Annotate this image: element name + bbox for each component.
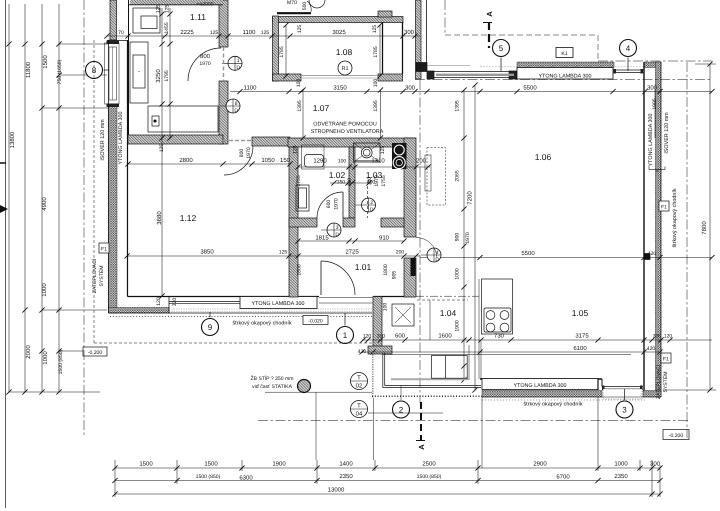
wall above 108 cropped: [277, 12, 311, 14]
svg-text:100: 100: [373, 79, 379, 88]
svg-text:1.04: 1.04: [440, 308, 457, 318]
label box: YTONG LAMBDA 300 bottom-right window: [482, 379, 598, 390]
svg-text:2000: 2000: [25, 345, 32, 359]
svg-text:A: A: [485, 11, 494, 17]
svg-text:1785: 1785: [279, 46, 285, 57]
svg-text:štrkový okapový chodník: štrkový okapový chodník: [232, 321, 291, 327]
svg-text:5500: 5500: [521, 250, 535, 257]
svg-text:STROPNEHO VENTILATORA: STROPNEHO VENTILATORA: [311, 129, 384, 135]
svg-text:300: 300: [647, 85, 658, 92]
wall: bottom wall left wing insulation: [109, 308, 170, 314]
svg-text:-0,020: -0,020: [308, 319, 323, 325]
svg-text:6300: 6300: [239, 475, 253, 482]
svg-text:T: T: [357, 375, 361, 382]
svg-text:13000: 13000: [328, 487, 345, 494]
wall: room 111 right wall lower: [219, 81, 228, 144]
svg-text:150: 150: [280, 157, 291, 164]
half circle cropped top: [309, 0, 325, 8]
axis 4: [620, 40, 637, 57]
wall: bathroom west wall: [289, 147, 298, 297]
svg-text:300: 300: [377, 334, 386, 340]
svg-text:04: 04: [356, 411, 363, 418]
fixture: washbasin 103: [354, 143, 381, 162]
walkway edge lines bottom: [265, 391, 372, 393]
window: left wall tall window: [105, 43, 120, 104]
door 111 dashes: [223, 47, 225, 81]
fixture: sink 104: [392, 304, 414, 326]
svg-text:K1: K1: [561, 51, 567, 57]
svg-text:2065: 2065: [455, 170, 461, 181]
svg-text:420: 420: [648, 251, 657, 257]
svg-text:1.01: 1.01: [355, 262, 372, 272]
svg-text:D: D: [236, 65, 240, 71]
svg-text:125: 125: [372, 25, 378, 34]
svg-text:1500 (850): 1500 (850): [417, 474, 442, 480]
section A bottom: [420, 402, 422, 440]
svg-text:910: 910: [379, 235, 390, 242]
svg-text:ZATEPLOVACÍ: ZATEPLOVACÍ: [91, 258, 98, 293]
window: NE window part2: [614, 69, 644, 71]
svg-text:800: 800: [239, 149, 245, 158]
window: bottom wall window glazing: [169, 301, 240, 303]
fixture: boiler circles: [392, 143, 407, 169]
svg-text:1.08: 1.08: [336, 47, 353, 57]
svg-text:1400: 1400: [339, 461, 353, 468]
dim chain: bottom horizontal lines: [115, 467, 660, 469]
dim chain: right side 7800: [709, 64, 711, 390]
wall: room 108 top: [273, 17, 404, 23]
svg-text:3250: 3250: [155, 69, 162, 83]
svg-text:120: 120: [363, 334, 372, 340]
door tag 4/D: [427, 248, 441, 262]
svg-text:1290: 1290: [313, 158, 327, 165]
porch slab lines: [383, 353, 481, 388]
axis 8: [86, 62, 103, 79]
dim line y=257 room 106 5500: [420, 257, 712, 259]
dim line y=183 short 102: [330, 182, 372, 184]
svg-text:D: D: [335, 232, 339, 238]
svg-text:350: 350: [337, 180, 346, 186]
dim extension lines left: [59, 43, 108, 45]
svg-text:YTONG LAMBDA 300: YTONG LAMBDA 300: [648, 114, 654, 167]
fixture: radiator 102: [296, 185, 309, 211]
svg-text:13800: 13800: [9, 131, 16, 148]
dim chain: left side vertical lines: [8, 4, 10, 392]
svg-text:R1: R1: [341, 66, 348, 72]
wall: east wall of 103/hall upper: [404, 138, 416, 237]
tag T/04: [351, 401, 368, 418]
svg-text:SYSTÉM: SYSTÉM: [662, 372, 669, 393]
svg-text:2800: 2800: [179, 157, 193, 164]
stove 105: [484, 308, 511, 332]
svg-text:1395: 1395: [373, 100, 379, 111]
wall: partition segment east of 112 door: [252, 137, 290, 146]
vertical dim lines 1395: [302, 90, 304, 138]
K1 tag: [556, 48, 573, 58]
door tag 2/D: [362, 198, 376, 212]
door 102 arc: [317, 192, 343, 218]
svg-text:1.02: 1.02: [329, 170, 346, 180]
svg-text:1900: 1900: [272, 461, 286, 468]
dim line y=167 bath fixtures: [298, 166, 430, 168]
duct wall right of 108: [382, 22, 384, 74]
svg-text:štrkový okapový chodník: štrkový okapový chodník: [672, 188, 678, 247]
wall: SE corner piece: [643, 391, 661, 398]
svg-text:125: 125: [293, 145, 299, 154]
svg-text:2: 2: [370, 200, 373, 206]
svg-text:2725: 2725: [345, 249, 359, 256]
svg-text:1100: 1100: [243, 29, 257, 36]
svg-text:1100: 1100: [244, 85, 258, 92]
section A top: [488, 22, 490, 48]
svg-text:D: D: [435, 257, 439, 263]
svg-text:1.07: 1.07: [313, 103, 330, 113]
svg-text:8: 8: [92, 66, 97, 75]
svg-text:6700: 6700: [556, 474, 570, 481]
svg-text:6100: 6100: [573, 345, 587, 352]
svg-text:3850: 3850: [200, 249, 214, 256]
svg-text:100: 100: [338, 159, 347, 165]
svg-text:ISOVER 120 mm: ISOVER 120 mm: [100, 119, 106, 161]
wall: bathroom block top wall: [288, 138, 415, 147]
axis 5: [493, 40, 510, 57]
svg-text:100: 100: [296, 79, 302, 88]
svg-text:3025: 3025: [332, 29, 346, 36]
svg-text:7200: 7200: [467, 191, 474, 205]
svg-text:1900: 1900: [455, 320, 461, 331]
wall: room 108 left: [273, 16, 279, 81]
svg-text:100: 100: [383, 303, 389, 312]
svg-text:125: 125: [380, 146, 386, 155]
svg-text:3: 3: [622, 405, 627, 414]
svg-text:YTONG LAMBDA 300: YTONG LAMBDA 300: [514, 383, 567, 389]
svg-text:ŽB STĺP ? 250 mm: ŽB STĺP ? 250 mm: [251, 375, 294, 382]
fixture: basin 102: [302, 145, 325, 169]
tag T/02: [351, 373, 368, 390]
lintel dashes over 112 door: [223, 140, 252, 142]
wall: room 111 left partition: [128, 0, 130, 135]
svg-text:1785: 1785: [373, 46, 379, 57]
dim line y=36 top of 111: [107, 35, 420, 37]
door 112 arc: [224, 146, 253, 175]
svg-text:1000: 1000: [614, 461, 628, 468]
wall: partition 102/103: [349, 147, 355, 218]
wall: bottom wall left wing inner face: [128, 296, 320, 298]
furniture: washing machine 111: [133, 8, 160, 33]
svg-text:1050: 1050: [261, 157, 275, 164]
wall: corridor east wall x=415: [416, 0, 422, 79]
svg-text:1.06: 1.06: [535, 152, 552, 162]
svg-text:900: 900: [455, 233, 461, 242]
dim line y=241 in 101: [298, 240, 404, 242]
wall: 106 top wall window head insulation: [517, 62, 614, 68]
F1 boxed labels: [99, 243, 109, 253]
svg-text:1000: 1000: [42, 351, 49, 365]
svg-text:+a2000: +a2000: [196, 2, 213, 8]
svg-text:125: 125: [261, 30, 270, 36]
door 107-106 leaf and arc: [416, 238, 437, 259]
svg-text:ODVETRANE POMOCOU: ODVETRANE POMOCOU: [313, 122, 377, 128]
svg-text:1.05: 1.05: [572, 308, 589, 318]
axis 9: [202, 319, 219, 336]
wall: bathroom bottom wall segments: [289, 218, 317, 227]
svg-text:ZATEPLOVACÍ: ZATEPLOVACÍ: [655, 364, 662, 399]
svg-text:A: A: [417, 444, 426, 450]
svg-text:4: 4: [626, 44, 631, 53]
vertical dim lines room 108 1785: [285, 25, 287, 76]
svg-text:300: 300: [405, 85, 416, 92]
vertical dim lines right of 104 x=466,477: [463, 90, 465, 380]
wall: partition under 111 block: [128, 135, 223, 144]
svg-text:7800: 7800: [701, 221, 708, 235]
sliding door track room 108: [301, 75, 378, 77]
door tag 1/D: [228, 56, 242, 70]
svg-text:YTONG LAMBDA 300: YTONG LAMBDA 300: [118, 112, 124, 165]
porch steps: [432, 356, 468, 379]
svg-text:F1: F1: [661, 205, 667, 211]
svg-text:420: 420: [358, 349, 367, 355]
svg-text:1800: 1800: [383, 264, 389, 275]
svg-text:200: 200: [396, 250, 405, 256]
door 101 entrance arc: [321, 261, 355, 295]
window: SE window part2: [602, 386, 643, 388]
wall: left exterior inner face: [127, 40, 129, 297]
gravel dotted band porch: [372, 395, 482, 397]
axis 2: [393, 401, 410, 418]
svg-text:1970: 1970: [334, 198, 340, 209]
window sill box SE: [603, 389, 642, 399]
svg-text:9: 9: [208, 323, 213, 332]
tag R1: [338, 61, 352, 75]
dim line y=164 room 112 top: [128, 163, 290, 165]
svg-text:125: 125: [165, 5, 171, 14]
svg-text:M70: M70: [287, 0, 297, 6]
dim line y=256 through 112/101: [127, 255, 420, 257]
svg-text:1500: 1500: [139, 461, 153, 468]
svg-text:125: 125: [156, 5, 162, 14]
svg-text:F1: F1: [663, 357, 669, 363]
pier tick on east wall: [644, 254, 650, 260]
vertical dim lines x=162,170 (left wing): [161, 8, 163, 296]
ZB column: [298, 380, 311, 393]
svg-text:600: 600: [395, 333, 406, 340]
svg-text:1970: 1970: [465, 232, 471, 243]
wall layers bracket right: [649, 169, 665, 171]
wall: east wall of hall lower: [404, 258, 416, 297]
svg-text:125: 125: [297, 25, 303, 34]
axis 3: [616, 401, 633, 418]
svg-text:100: 100: [347, 178, 353, 187]
svg-text:3: 3: [336, 225, 339, 231]
svg-text:-0,200: -0,200: [669, 433, 684, 439]
svg-text:ISOVER 120 mm: ISOVER 120 mm: [664, 112, 670, 154]
svg-text:2350: 2350: [339, 473, 353, 480]
svg-text:YTONG LAMBDA 300: YTONG LAMBDA 300: [539, 74, 592, 80]
svg-text:1815: 1815: [315, 235, 329, 242]
wall: NE corner column: [644, 62, 661, 68]
svg-text:4900: 4900: [41, 197, 48, 211]
dim line y=352 6100: [362, 351, 660, 353]
page frame line: [5, 0, 7, 508]
vertical dim line x=655 1995: [654, 90, 656, 138]
corner divider SW: [168, 297, 170, 314]
svg-text:750 (1650): 750 (1650): [57, 59, 63, 84]
svg-text:2350: 2350: [614, 473, 628, 480]
svg-text:300: 300: [650, 461, 661, 468]
svg-text:500: 500: [302, 2, 308, 11]
svg-text:125: 125: [210, 30, 219, 36]
level marks: [303, 316, 328, 325]
svg-text:300: 300: [404, 29, 415, 36]
svg-text:905: 905: [392, 271, 398, 280]
svg-text:1.12: 1.12: [180, 213, 197, 223]
wall: bottom insulation band: [482, 391, 602, 398]
door 111 arc: [188, 48, 221, 81]
door tag 8/D: [226, 99, 240, 113]
kitchen counter 105: [482, 279, 513, 334]
svg-text:1: 1: [343, 331, 348, 340]
glazed opening 107-106: [427, 71, 517, 73]
door leaf 4/D black: [411, 258, 416, 276]
svg-text:1800: 1800: [297, 264, 303, 275]
svg-text:1795: 1795: [164, 70, 170, 81]
svg-text:3680: 3680: [156, 211, 163, 225]
wall: porch west wall: [373, 297, 382, 353]
wall: porch footing: [368, 346, 392, 354]
svg-text:1500 (850): 1500 (850): [58, 349, 64, 374]
svg-text:1500 (850): 1500 (850): [196, 474, 221, 480]
wall: left exterior insulation band: [109, 40, 118, 313]
svg-text:SYSTÉM: SYSTÉM: [98, 266, 105, 287]
svg-text:YTONG LAMBDA 300: YTONG LAMBDA 300: [252, 301, 305, 307]
svg-text:-0,200: -0,200: [88, 350, 103, 356]
dim line y=340 bottom 104/105: [362, 339, 712, 341]
svg-text:viď časť STATIKA: viď časť STATIKA: [252, 384, 293, 390]
svg-text:2225: 2225: [180, 29, 194, 36]
svg-text:2500: 2500: [422, 461, 436, 468]
svg-text:1500: 1500: [204, 461, 218, 468]
svg-text:T: T: [357, 403, 361, 410]
svg-text:730: 730: [494, 333, 505, 340]
label box: YTONG LAMBDA 300 (K1 window): [517, 68, 613, 80]
svg-text:125: 125: [279, 250, 288, 256]
svg-text:120: 120: [156, 297, 162, 306]
svg-text:320: 320: [172, 298, 178, 307]
svg-text:1455: 1455: [164, 22, 170, 33]
svg-text:1.03: 1.03: [366, 170, 383, 180]
svg-text:1500: 1500: [42, 55, 49, 69]
svg-text:1000: 1000: [41, 283, 48, 297]
svg-text:3175: 3175: [575, 333, 589, 340]
svg-text:1000: 1000: [455, 268, 461, 279]
wall: east exterior insulation band: [656, 62, 662, 397]
svg-text:70: 70: [118, 30, 124, 36]
svg-text:8: 8: [235, 101, 238, 107]
axis dash-dot lines: [83, 0, 85, 437]
svg-text:2900: 2900: [533, 461, 547, 468]
wall: room 111 right wall upper: [219, 0, 228, 47]
svg-text:štrkový okapový chodník: štrkový okapový chodník: [523, 402, 582, 408]
axis 1: [337, 327, 354, 344]
dashed wardrobe corridor: [427, 148, 446, 206]
svg-text:600: 600: [326, 200, 332, 209]
svg-text:1600: 1600: [438, 333, 452, 340]
svg-text:D: D: [370, 207, 374, 213]
door opening: entrance threshold: [319, 297, 373, 299]
furniture: sink counter 111: [130, 42, 148, 103]
svg-text:125: 125: [159, 144, 165, 153]
furniture: wardrobe 111: [148, 106, 218, 132]
svg-text:1: 1: [237, 58, 240, 64]
wall: room 108 bottom stubs: [273, 74, 302, 81]
wall: bottom wall right block: [480, 378, 602, 380]
svg-text:5: 5: [499, 44, 504, 53]
svg-text:120: 120: [664, 334, 673, 340]
door 103 dashed swing: [367, 186, 369, 218]
door tag 3/D: [327, 223, 341, 237]
svg-text:1995: 1995: [652, 98, 658, 109]
svg-text:11800: 11800: [25, 61, 32, 78]
walkway dashed outline: [93, 40, 95, 343]
svg-text:1.11: 1.11: [190, 12, 206, 22]
svg-text:420: 420: [647, 346, 656, 352]
svg-text:5500: 5500: [523, 85, 537, 92]
svg-text:D: D: [234, 108, 238, 114]
svg-text:300: 300: [653, 334, 662, 340]
svg-text:1395: 1395: [455, 100, 461, 111]
wall: left exterior top stub: [110, 0, 117, 40]
svg-text:F1: F1: [101, 247, 107, 253]
wall: room 111 top wall (cropped): [130, 0, 223, 5]
svg-text:3150: 3150: [333, 85, 347, 92]
svg-text:1395: 1395: [297, 100, 303, 111]
svg-text:02: 02: [356, 383, 363, 390]
label box: YTONG LAMBDA 300 bottom-left window: [240, 297, 317, 309]
svg-text:1970: 1970: [199, 61, 210, 67]
dim line y=90 under 108: [230, 91, 712, 93]
kitchen dashed upper cabinets: [417, 299, 468, 301]
left edge section mark: [0, 205, 8, 213]
